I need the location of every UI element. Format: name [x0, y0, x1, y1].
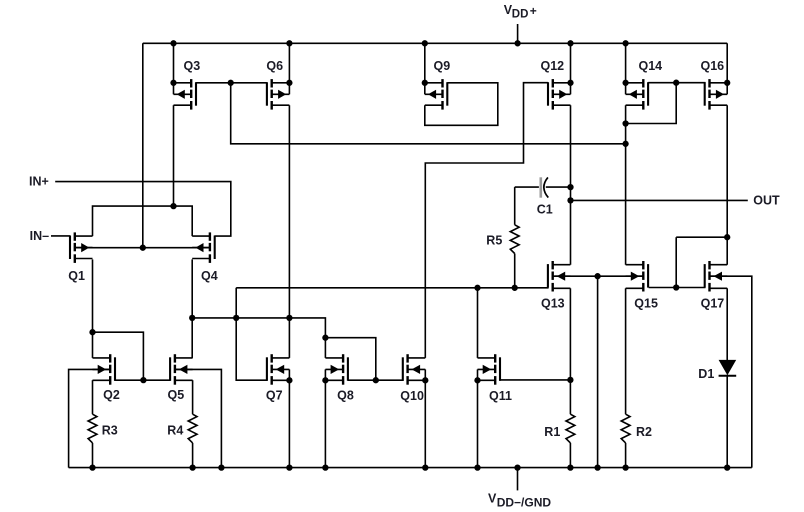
wire bias line down-right	[231, 83, 626, 144]
svg-text:OUT: OUT	[753, 194, 780, 208]
svg-text:IN+: IN+	[29, 175, 49, 189]
junction gate tie	[228, 80, 234, 86]
svg-text:Q9: Q9	[434, 59, 451, 73]
transistor Q5	[170, 354, 193, 385]
transistor Q11	[474, 354, 500, 385]
resistor R1	[566, 414, 575, 467]
transistor Q1	[70, 232, 93, 263]
junction bias at Q14 drain line	[622, 141, 628, 147]
wire Q14 drain loop	[626, 83, 677, 124]
transistor Q4	[192, 232, 215, 263]
transistor Q7	[267, 354, 293, 385]
junction R4 rail	[189, 464, 195, 470]
junction bus at Q11 drain	[474, 285, 480, 291]
svg-text:Q6: Q6	[266, 59, 283, 73]
wire Q5 body	[175, 369, 222, 467]
svg-text:Q14: Q14	[639, 59, 663, 73]
junction body line	[594, 273, 600, 279]
wire Q13 source drop	[569, 288, 571, 414]
wire Q13-Q15 body line	[555, 275, 644, 277]
junction Q16 drain gate tie	[724, 234, 730, 240]
wire Q7 source drop	[288, 380, 290, 467]
junction Q5 body rail	[218, 464, 224, 470]
junction tail node	[170, 203, 176, 209]
wire Q17 source to D1	[726, 288, 728, 360]
junction Q11 gate at R1	[567, 377, 573, 383]
junction Q9 rail	[422, 40, 428, 46]
svg-text:Q10: Q10	[400, 389, 424, 403]
wire gate tie riser	[675, 237, 677, 287]
junction R3 rail	[89, 464, 95, 470]
wire Q3 drain to tail node	[173, 105, 175, 206]
wire Q4-Q5 drain column	[191, 259, 193, 358]
wire Q2-Q5 gate wire	[115, 379, 171, 381]
junction Q14 drain loop	[622, 120, 628, 126]
wire IN+ lead	[55, 182, 231, 237]
transistor Q12	[548, 79, 574, 110]
wire Q9 gate-drain loop	[425, 83, 498, 126]
svg-text:Q11: Q11	[489, 389, 512, 403]
wire diff-pair common source	[93, 206, 193, 236]
svg-text:Q2: Q2	[103, 388, 120, 402]
svg-text:Q4: Q4	[201, 269, 218, 283]
svg-text:Q16: Q16	[701, 59, 725, 73]
svg-text:R5: R5	[486, 234, 502, 248]
svg-text:DD−/GND: DD−/GND	[497, 495, 552, 509]
wire Q6-Q7 drain column	[288, 105, 290, 358]
wire Q10 source drop	[424, 380, 426, 467]
transistor Q6	[267, 79, 293, 110]
wire Q12-Q13 drain column	[570, 105, 572, 265]
svg-text:R3: R3	[102, 424, 118, 438]
capacitor C1	[541, 177, 549, 197]
wire rail right end drop to Q16 source	[726, 43, 728, 82]
resistor R5	[510, 187, 519, 288]
svg-text:R1: R1	[544, 425, 560, 439]
resistor R2	[621, 414, 630, 467]
junction VDD+ rail	[514, 40, 520, 46]
wire VDD- lead	[517, 468, 519, 491]
power rail VDD-/GND	[69, 467, 752, 469]
junction Q8 rail	[322, 464, 328, 470]
power rail VDD+	[143, 42, 727, 44]
junction C1 node	[567, 184, 573, 190]
svg-text:Q13: Q13	[541, 297, 565, 311]
wire first-stage bus	[236, 287, 548, 289]
svg-text:Q12: Q12	[541, 59, 565, 73]
transistor Q16	[705, 79, 731, 110]
wire Q15-Q17 gate wire	[649, 287, 706, 289]
wire Q3-Q6 gate tie	[196, 82, 267, 84]
junction Q14 gate node	[673, 80, 679, 86]
wire drain jog to gate tie	[93, 332, 144, 380]
junction R2 rail	[622, 464, 628, 470]
resistor R3	[88, 380, 97, 467]
transistor Q15	[626, 261, 649, 292]
junction D1 rail	[724, 464, 730, 470]
wire diff-pair body line	[75, 247, 210, 249]
junction Q14 rail	[622, 40, 628, 46]
svg-text:C1: C1	[537, 202, 553, 216]
diode D1	[719, 360, 737, 376]
svg-text:IN–: IN–	[30, 229, 49, 243]
wire Q8 source drop	[324, 380, 326, 467]
wire Q14-Q16 gate tie	[648, 82, 705, 84]
wire Q7 gate riser	[236, 288, 267, 380]
wire Q17 body	[710, 276, 751, 467]
wire VDD+ lead	[517, 24, 519, 43]
wire R5 top to C1	[515, 186, 539, 188]
svg-text:Q7: Q7	[266, 389, 283, 403]
wire D1 to rail	[726, 375, 728, 468]
wire node jog to Q8 drain	[289, 318, 325, 338]
junction R5 bottom	[512, 285, 518, 291]
svg-text:Q8: Q8	[337, 389, 354, 403]
svg-text:Q15: Q15	[634, 297, 658, 311]
transistor Q9	[422, 79, 448, 110]
junction Q8 gate tie	[373, 377, 379, 383]
transistor Q8	[322, 354, 348, 385]
transistor Q17	[705, 261, 728, 292]
junction body/VDD	[140, 245, 146, 251]
junction Q7 rail	[286, 464, 292, 470]
junction Q1-Q2 drains	[89, 329, 95, 335]
label VDD-/GND	[488, 491, 551, 509]
wire Q8 drain riser	[324, 338, 326, 358]
wire Q12 gate to Q10 drain	[425, 83, 548, 358]
svg-text:R2: R2	[636, 425, 652, 439]
wire C1 to output column	[546, 186, 571, 188]
junction Q8 drain node	[322, 335, 328, 341]
wire Q11 gate to R1 top	[499, 379, 570, 381]
wire Q11 source drop	[477, 380, 479, 467]
junction node at Q6 drain column	[286, 315, 292, 321]
svg-text:+: +	[530, 4, 537, 18]
junction node at Q7 gate riser	[233, 315, 239, 321]
svg-text:Q1: Q1	[68, 269, 85, 283]
wire Q16-Q17 drain column	[726, 105, 728, 265]
junction OUT node	[567, 197, 573, 203]
junction R1 rail	[567, 464, 573, 470]
wire left VDD drop to input-pair bodies	[142, 43, 144, 247]
svg-text:DD: DD	[512, 9, 529, 21]
junction Q3 rail	[170, 40, 176, 46]
transistor Q13	[548, 261, 571, 292]
junction Q6 rail	[286, 40, 292, 46]
wire second stage node	[192, 317, 289, 319]
label VDD+	[504, 3, 537, 21]
wire Q6 source to rail	[288, 43, 290, 83]
junction Q10 rail	[422, 464, 428, 470]
svg-text:Q5: Q5	[168, 388, 185, 402]
resistor R4	[188, 380, 197, 467]
transistor Q10	[403, 354, 429, 385]
wire Q15 source drop	[625, 288, 627, 414]
junction body rail	[594, 464, 600, 470]
wire body line drop	[597, 276, 599, 467]
junction Q2-Q5 gate tie	[140, 377, 146, 383]
transistor Q3	[170, 79, 196, 110]
junction Q11 rail	[474, 464, 480, 470]
svg-text:D1: D1	[698, 367, 714, 381]
junction Q12 rail	[567, 40, 573, 46]
wire Q9 source to rail	[424, 43, 426, 83]
wire Q8 diode tie	[325, 338, 375, 381]
wire Q3 source to rail	[173, 43, 175, 83]
wire Q2 body	[69, 369, 111, 467]
junction Q15-Q17 gates	[673, 284, 679, 290]
junction VDD- rail	[514, 464, 520, 470]
wire Q1-Q2 drain column	[92, 259, 94, 358]
wire gate tie to Q16 drain	[676, 236, 727, 238]
junction Q4-Q5 drains	[189, 315, 195, 321]
wire IN- lead	[51, 235, 70, 237]
transistor Q14	[622, 79, 648, 110]
svg-text:R4: R4	[167, 424, 183, 438]
transistor Q2	[93, 354, 116, 385]
svg-text:V: V	[488, 491, 497, 505]
wire Q11 drain riser	[477, 288, 479, 358]
wire Q14 drain column	[625, 105, 627, 265]
wire Q8-Q10 gate wire	[348, 379, 404, 381]
svg-text:Q17: Q17	[701, 297, 725, 311]
wire Q14 source to rail	[625, 43, 627, 83]
wire Q12 source to rail	[570, 43, 572, 83]
wire OUT line	[571, 199, 748, 201]
svg-text:Q3: Q3	[184, 59, 201, 73]
